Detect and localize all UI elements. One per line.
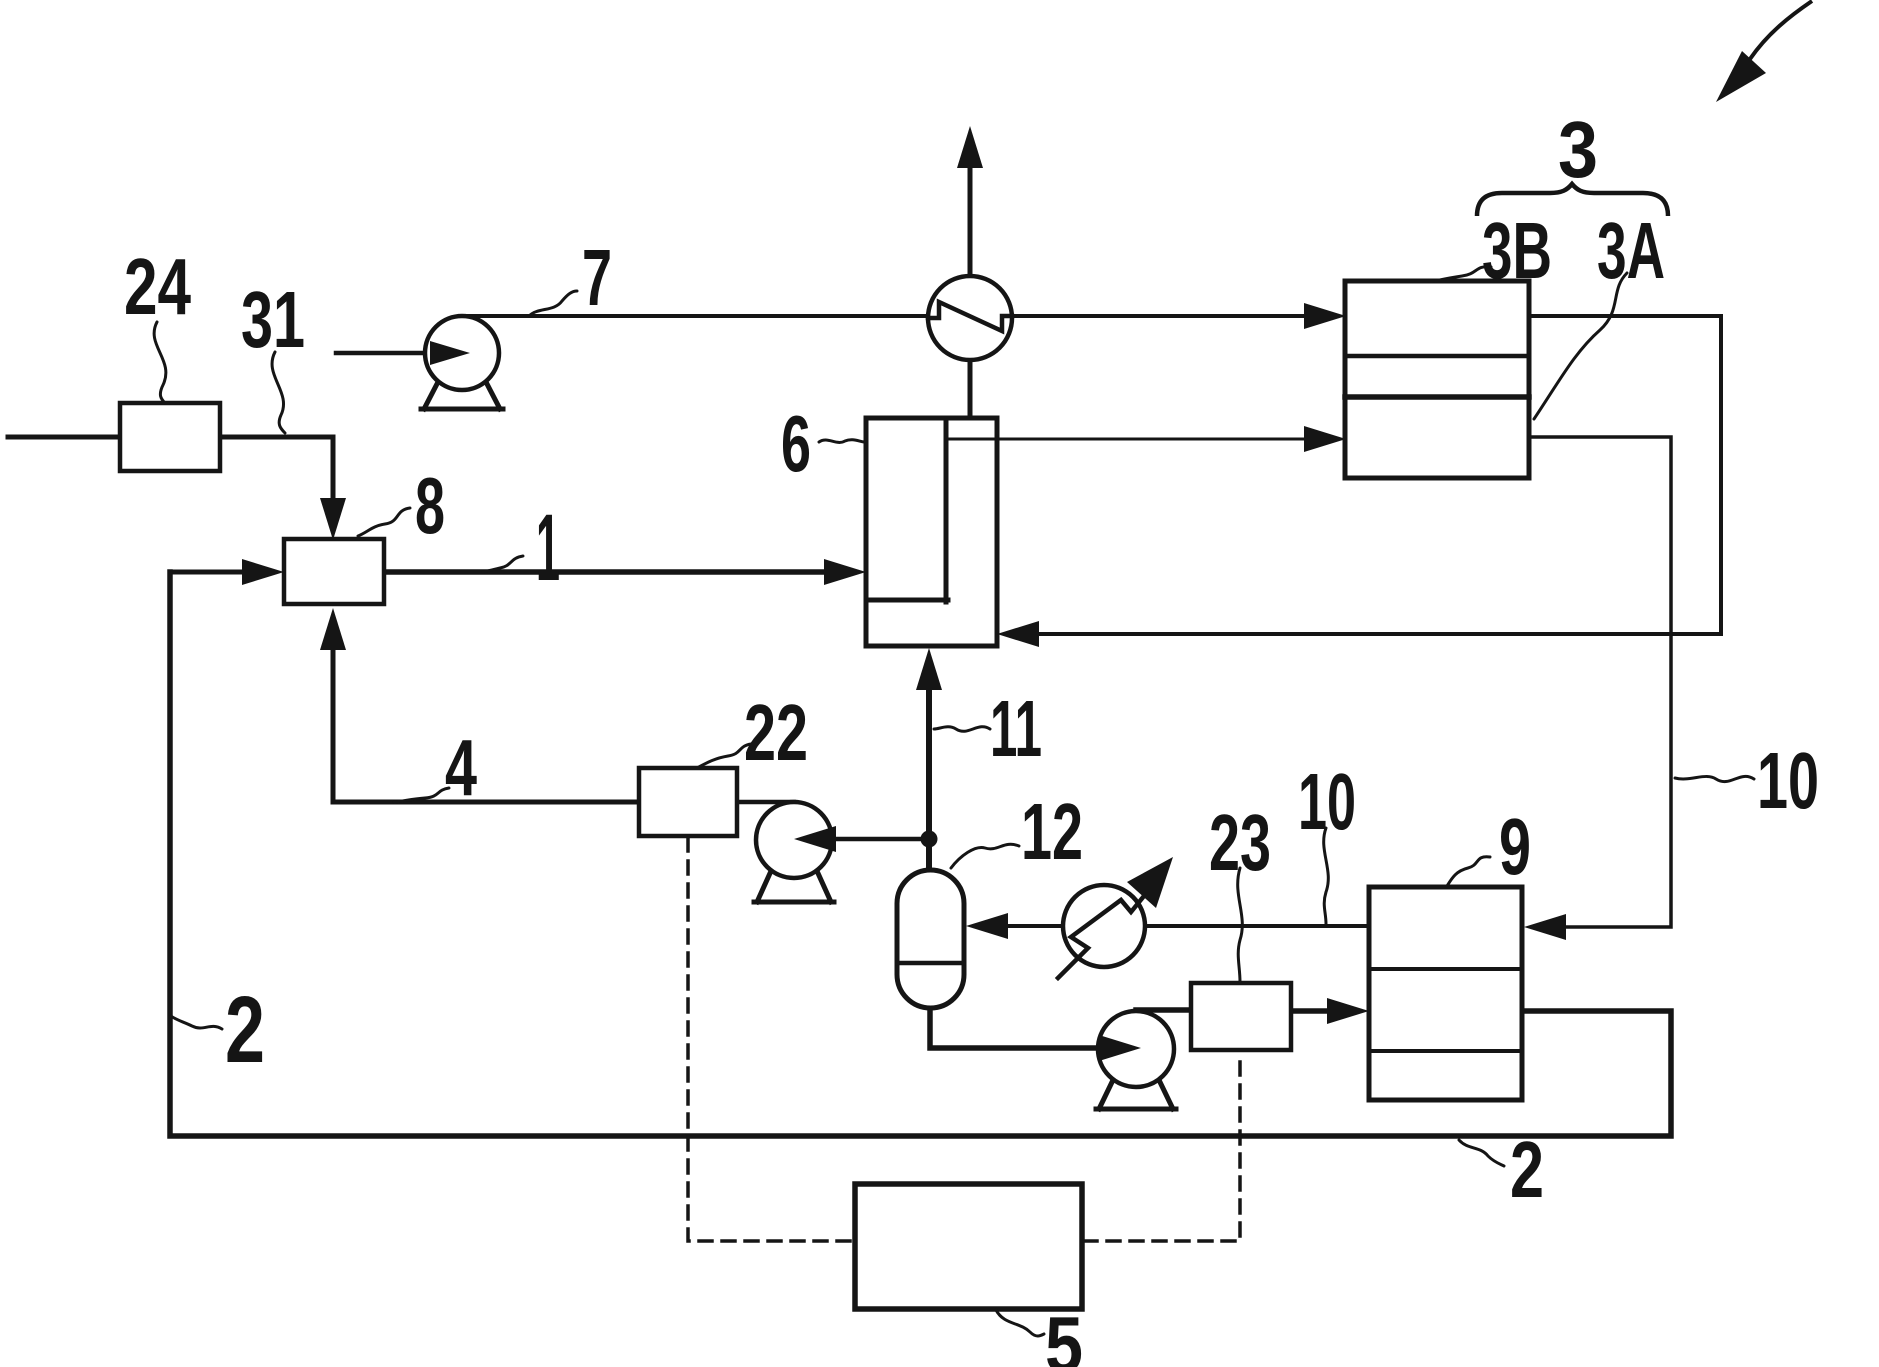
svg-text:10: 10: [1757, 736, 1819, 825]
svg-text:10: 10: [1298, 757, 1356, 846]
svg-text:3A: 3A: [1597, 206, 1665, 295]
svg-text:11: 11: [990, 684, 1042, 773]
svg-text:3: 3: [1558, 105, 1598, 194]
svg-text:24: 24: [124, 242, 191, 331]
svg-text:2: 2: [1510, 1125, 1544, 1214]
svg-text:12: 12: [1021, 787, 1083, 876]
svg-text:3B: 3B: [1482, 206, 1552, 295]
svg-text:8: 8: [415, 461, 445, 550]
svg-text:6: 6: [781, 399, 811, 488]
svg-text:23: 23: [1209, 798, 1271, 887]
svg-text:31: 31: [241, 275, 305, 364]
svg-text:22: 22: [744, 688, 808, 777]
svg-text:2: 2: [225, 977, 265, 1083]
svg-text:4: 4: [445, 723, 477, 812]
svg-text:9: 9: [1499, 802, 1531, 891]
svg-text:5: 5: [1045, 1300, 1083, 1367]
svg-text:1: 1: [536, 495, 560, 601]
svg-text:7: 7: [582, 233, 612, 322]
